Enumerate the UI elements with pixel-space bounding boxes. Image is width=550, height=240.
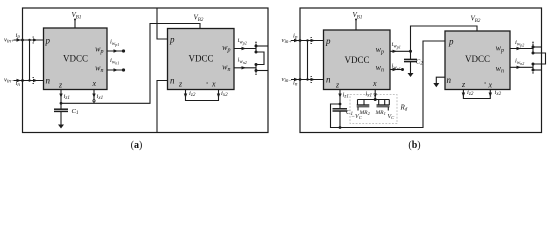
svg-text:n: n [46, 75, 51, 85]
pin wp U1 [95, 45, 103, 56]
wire x1 down [92, 90, 95, 104]
label iwp2 [238, 37, 247, 46]
label ix1 [97, 93, 104, 101]
pin n U4 [447, 75, 452, 85]
svg-text:n: n [326, 74, 331, 84]
svg-text:iz2: iz2 [467, 89, 474, 97]
VDCC U4 block [445, 31, 510, 90]
capacitor C2 (b) [404, 51, 417, 73]
pin z U3 [335, 80, 340, 89]
pin z U1 [58, 80, 63, 89]
label iz2 [189, 90, 196, 98]
ground below C2 [408, 73, 414, 77]
svg-text:VDCC: VDCC [63, 54, 88, 64]
pin p U4 [448, 36, 454, 46]
label VB2 (a) [194, 14, 204, 24]
bias VB1 stub [74, 19, 76, 29]
label iwn2 [238, 57, 247, 66]
wire z1 down (b) [338, 90, 341, 106]
input vin- label (b) [282, 76, 292, 84]
svg-text:ip: ip [293, 33, 298, 41]
node vin- on loop [21, 79, 24, 82]
svg-text:vin+: vin+ [4, 37, 14, 45]
label C1 (b) [346, 109, 353, 117]
svg-text:in: in [293, 80, 298, 88]
label in (b) [293, 80, 298, 88]
label -VC [351, 114, 363, 120]
node vin+ on loop [21, 39, 24, 42]
label ip [16, 32, 21, 40]
svg-text:VC: VC [388, 114, 396, 120]
svg-text:iz2: iz2 [189, 90, 196, 98]
pin wp U3 [376, 45, 384, 56]
wire wn2 to loop (b) [533, 69, 542, 71]
pin wn U1 [95, 64, 103, 75]
VDCC U3 block [324, 30, 391, 90]
node vin- on loop (b) [299, 78, 302, 81]
svg-text:x: x [211, 80, 216, 89]
Rd mos resistor dashed box [350, 95, 397, 124]
svg-text:(a): (a) [131, 140, 143, 151]
pin x U4 [488, 80, 493, 89]
pin wn U3 [376, 63, 384, 74]
wire vin+ to p (b) [291, 39, 324, 42]
wire wn1 output (b) [390, 68, 404, 71]
pin p U2 [169, 34, 175, 44]
ground below C1 (a) [58, 125, 64, 129]
wire wp1 to VB2 run (b) [411, 26, 478, 51]
label iwn2 (b) [515, 58, 524, 67]
wire wn2 output [234, 66, 256, 69]
VDCC U2 label [188, 54, 213, 64]
wire p-n input tie (b) [306, 39, 308, 80]
label iwp1 (b) [392, 41, 401, 50]
svg-text:x: x [92, 79, 97, 88]
wire wp1 output [107, 49, 125, 52]
svg-text:x: x [372, 79, 377, 88]
svg-text:C2: C2 [416, 59, 423, 67]
label iwp2 (b) [515, 39, 524, 48]
node marks inputs (a) [33, 37, 35, 84]
label Rd [400, 104, 408, 113]
pin p U3 [325, 36, 331, 46]
wire vin+ to p [14, 38, 44, 41]
svg-text:VDCC: VDCC [465, 54, 490, 64]
wire n4 ground stub [436, 77, 445, 83]
svg-text:x: x [488, 80, 493, 89]
label iz1 (b) [343, 92, 349, 100]
node vin+ on loop (b) [299, 39, 302, 42]
port bus wn2 (b) [532, 63, 535, 74]
mark near x U2 [207, 83, 208, 84]
svg-text:iz1: iz1 [64, 93, 70, 101]
pin wp U4 [496, 44, 504, 55]
VDCC U1 block [44, 28, 108, 90]
svg-text:MR1: MR1 [375, 110, 386, 116]
svg-text:n: n [170, 75, 175, 85]
wire loop to n2 [157, 81, 168, 133]
caption (b) [408, 140, 420, 151]
pin wn U4 [496, 64, 504, 75]
svg-text:−VC: −VC [351, 114, 363, 120]
label MR2 [359, 110, 371, 116]
wire wp2-wn2 tie (b) [533, 53, 546, 64]
wire wp2 output (b) [510, 47, 533, 50]
input vin+ label (b) [282, 37, 292, 45]
svg-text:C1: C1 [72, 108, 79, 116]
wire wp2 output [234, 47, 256, 50]
VDCC U2 block [168, 29, 235, 90]
label ix2 (b) [495, 89, 502, 97]
svg-text:n: n [447, 75, 452, 85]
wire p-n input tie [28, 39, 30, 82]
wire C1 bottom to p4 (b) [340, 41, 445, 128]
pin x U3 [372, 79, 377, 88]
label C1 (a) [72, 108, 79, 116]
label VB2 (b) [471, 15, 481, 25]
pin p U1 [45, 35, 51, 45]
wire wn1 output [107, 68, 125, 71]
wire z1 down [59, 90, 62, 104]
port bus wp2 (b) [532, 42, 535, 55]
wire around C1 (b) [331, 104, 341, 128]
wire vin- to n (b) [291, 78, 324, 81]
label iwn1 [110, 57, 119, 66]
wire x1 to VB2 run [61, 24, 200, 104]
label iz1 [64, 93, 70, 101]
wire loop to p2 [157, 8, 168, 39]
label ip (b) [293, 33, 298, 41]
pin n U1 [46, 75, 51, 85]
caption (a) [131, 140, 143, 151]
transistor MR2 [357, 100, 370, 111]
svg-text:ix2: ix2 [221, 90, 228, 98]
wire vin- to n [14, 79, 44, 82]
VDCC U4 label [465, 54, 490, 64]
input vin+ label [4, 37, 14, 45]
wire wp2 to loop [256, 45, 268, 47]
svg-text:VDCC: VDCC [344, 55, 369, 65]
pin n U2 [170, 75, 175, 85]
pin wp U2 [222, 43, 230, 54]
label in [16, 80, 21, 88]
svg-text:p: p [448, 36, 454, 46]
wire wp2-wn2 tie [256, 52, 264, 65]
svg-text:p: p [45, 35, 51, 45]
label ix2 [221, 90, 228, 98]
wire wn2 output (b) [510, 66, 533, 69]
svg-text:vin−: vin− [4, 77, 14, 85]
pin x U1 [92, 79, 97, 88]
port bus wn2 [255, 63, 258, 75]
wire Rd node rail [358, 99, 390, 101]
node marks inputs (b) [311, 37, 313, 83]
svg-text:p: p [169, 34, 175, 44]
pin z U4 [461, 80, 466, 89]
svg-text:(b): (b) [408, 140, 420, 151]
wire wn2 to loop [256, 70, 268, 72]
label VB1 [72, 11, 82, 21]
ground at n4 [433, 83, 439, 87]
node z1 [60, 102, 63, 105]
svg-text:iz1: iz1 [343, 92, 349, 100]
svg-text:ix2: ix2 [495, 89, 502, 97]
transistor MR1 [377, 100, 390, 111]
pin n U3 [326, 74, 331, 84]
wire z2-x2 short [184, 90, 220, 101]
wire wp1 output (b) [390, 50, 412, 53]
wire outer loop (b) [300, 8, 542, 133]
pin x U2 [211, 80, 216, 89]
svg-text:vin−: vin− [282, 76, 292, 84]
bias VB1 stub (b) [355, 19, 357, 31]
label iz2 (b) [467, 89, 474, 97]
wire outer loop (a) [23, 8, 269, 133]
label iwp1 [110, 39, 119, 48]
label MR1 [375, 110, 386, 116]
input vin- label [4, 77, 14, 85]
svg-text:p: p [325, 36, 331, 46]
svg-text:in: in [16, 80, 21, 88]
wire wp2 to loop (b) [533, 46, 542, 48]
capacitor C1 (b) [333, 104, 348, 129]
wire z2-x2 short (b) [462, 90, 492, 99]
label ix1 (b) [365, 91, 372, 99]
VDCC U1 label [63, 54, 88, 64]
wire x1 down (b) [374, 90, 377, 102]
label VB1 (b) [353, 11, 363, 21]
svg-text:vin+: vin+ [282, 37, 292, 45]
svg-text:ip: ip [16, 32, 21, 40]
svg-text:ix1: ix1 [97, 93, 104, 101]
port bus wp2 [255, 42, 258, 54]
VDCC U3 label [344, 55, 369, 65]
label iwn1 (b) [392, 63, 401, 72]
pin wn U2 [222, 63, 230, 74]
svg-text:VDCC: VDCC [188, 54, 213, 64]
pin z U2 [178, 80, 183, 89]
capacitor C1 (a) [54, 103, 68, 125]
label VC [388, 114, 396, 120]
label C2 [416, 59, 423, 67]
mark near x U4 [485, 83, 486, 84]
